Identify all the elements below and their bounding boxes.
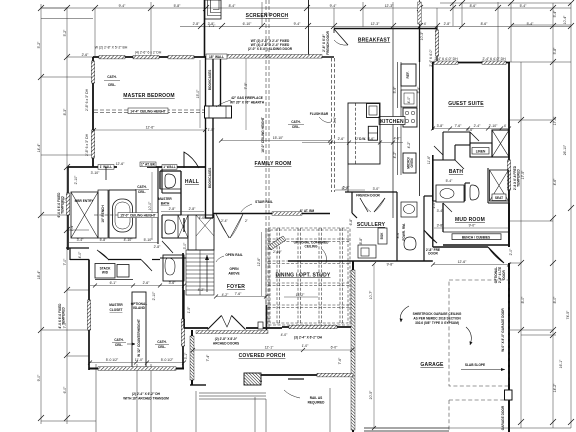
kitchen counter edge <box>397 62 399 108</box>
svg-text:CEIL.: CEIL. <box>115 343 123 347</box>
bench/cubbies <box>452 234 501 240</box>
svg-text:2'-4": 2'-4" <box>474 124 482 128</box>
stairs <box>186 250 214 295</box>
svg-text:SCREEN PORCH: SCREEN PORCH <box>246 13 289 19</box>
svg-text:6'-8": 6'-8" <box>349 218 353 226</box>
foyer right wall to dining <box>265 228 267 328</box>
garage corner door <box>488 247 504 263</box>
svg-text:PDWR. RM.: PDWR. RM. <box>402 223 406 240</box>
guest wing left wall upper <box>436 26 438 62</box>
micro/oven box <box>403 153 416 173</box>
svg-text:SCULLERY: SCULLERY <box>357 222 386 228</box>
svg-text:8'-6": 8'-6" <box>396 231 400 239</box>
porch dim line <box>193 349 352 351</box>
svg-text:5'-8": 5'-8" <box>553 47 557 55</box>
master bedroom top wall <box>93 57 206 167</box>
svg-text:(2) 2'-8" X 8'-0": (2) 2'-8" X 8'-0" <box>215 337 238 341</box>
svg-text:OPEN: OPEN <box>229 267 239 271</box>
svg-text:10'-3": 10'-3" <box>420 31 424 40</box>
tub platform <box>109 190 136 238</box>
scullery counter <box>358 245 376 258</box>
10-0 vertical dim <box>151 172 153 240</box>
svg-text:BREAKFAST: BREAKFAST <box>358 38 390 44</box>
svg-text:9'-4": 9'-4" <box>330 4 338 8</box>
svg-text:DOOR: DOOR <box>428 252 438 256</box>
kitchen right wall <box>419 0 421 26</box>
svg-text:5'-8": 5'-8" <box>100 238 108 242</box>
svg-text:ABOVE: ABOVE <box>228 272 239 276</box>
svg-text:302.6 (5/8" TYPE X GYPSUM): 302.6 (5/8" TYPE X GYPSUM) <box>415 321 459 325</box>
linen label <box>472 148 489 155</box>
svg-text:2'-8" 6 x 3" DH: 2'-8" 6 x 3" DH <box>85 88 89 111</box>
mud room dims <box>434 227 508 229</box>
svg-text:TEMPERED: TEMPERED <box>61 195 65 213</box>
bsk box <box>378 228 387 244</box>
svg-text:CEIL.: CEIL. <box>138 190 146 194</box>
svg-text:3'-1": 3'-1" <box>333 116 337 124</box>
svg-text:7'-4": 7'-4" <box>70 224 74 232</box>
svg-text:2'-4" 6 4'-0" DH: 2'-4" 6 4'-0" DH <box>434 57 458 61</box>
svg-text:4'-0": 4'-0" <box>281 333 289 337</box>
svg-text:2'-8": 2'-8" <box>193 22 201 26</box>
svg-text:7'-4": 7'-4" <box>206 354 210 362</box>
ceiling dashed line vertical <box>266 0 269 328</box>
svg-text:CEIL.: CEIL. <box>158 345 166 349</box>
svg-text:5'-4": 5'-4" <box>520 4 528 8</box>
svg-text:14'-4": 14'-4" <box>37 143 41 152</box>
dining corner hatched wedge <box>268 236 286 250</box>
svg-text:REF.: REF. <box>406 71 410 78</box>
wc toilet 2 <box>165 220 176 234</box>
svg-text:2'-4": 2'-4" <box>221 219 229 223</box>
svg-text:3'-10": 3'-10" <box>91 171 100 175</box>
svg-text:4'-2": 4'-2" <box>393 151 397 159</box>
stack w/d <box>95 264 115 279</box>
svg-text:BATH: BATH <box>449 169 464 175</box>
svg-text:16" BENCH: 16" BENCH <box>101 205 105 223</box>
range <box>403 108 417 127</box>
svg-text:8'-8": 8'-8" <box>359 237 363 245</box>
svg-text:MASTER: MASTER <box>158 197 172 201</box>
scattered small dims <box>70 22 513 382</box>
svg-text:1" AT. BK: 1" AT. BK <box>141 163 156 167</box>
scullery walls <box>345 192 433 261</box>
window note block <box>248 39 293 51</box>
svg-text:12'-3": 12'-3" <box>385 4 394 8</box>
right dim line b <box>552 3 554 428</box>
svg-text:5'-10": 5'-10" <box>144 238 153 242</box>
svg-text:2'-6": 2'-6" <box>338 137 346 141</box>
svg-text:4'-0": 4'-0" <box>199 216 207 220</box>
garage right wall <box>508 263 510 390</box>
top dim line 1 <box>41 7 571 9</box>
svg-text:BATH: BATH <box>161 202 170 206</box>
svg-text:DOOR: DOOR <box>502 270 506 280</box>
svg-text:2'-6": 2'-6" <box>82 53 90 57</box>
closet top door arc <box>97 250 109 260</box>
svg-text:3'-8": 3'-8" <box>437 124 445 128</box>
svg-text:5'-8": 5'-8" <box>174 4 182 8</box>
top extension lines <box>95 2 511 218</box>
svg-text:2'-8": 2'-8" <box>169 207 177 211</box>
svg-text:10'-7": 10'-7" <box>369 290 373 299</box>
svg-text:D.W.: D.W. <box>359 137 366 141</box>
svg-text:2'-8": 2'-8" <box>444 22 452 26</box>
screen porch right screen line <box>308 0 310 56</box>
svg-text:STAIR RAIL: STAIR RAIL <box>255 200 273 204</box>
guest suite right wall (house right wall) <box>508 62 510 247</box>
garage door jamb <box>505 390 513 400</box>
master bedroom window hatches left <box>91 61 94 83</box>
svg-text:2'-0": 2'-0" <box>432 201 436 209</box>
hall double doors swings <box>216 214 243 238</box>
svg-text:26'-10": 26'-10" <box>563 144 567 155</box>
svg-text:13'-2": 13'-2" <box>296 293 305 297</box>
svg-text:MASTER: MASTER <box>109 303 123 307</box>
closet right wall <box>182 253 184 369</box>
closet right <box>492 130 509 157</box>
guest vanity <box>436 185 464 202</box>
svg-text:12'-6": 12'-6" <box>116 162 125 166</box>
svg-text:5'-6": 5'-6" <box>368 137 376 141</box>
svg-text:4'-2": 4'-2" <box>198 288 206 292</box>
kitchen counter right <box>400 62 402 175</box>
svg-text:1'-5": 1'-5" <box>187 306 191 314</box>
svg-text:4'-0": 4'-0" <box>394 137 402 141</box>
svg-text:5'-9": 5'-9" <box>393 86 397 94</box>
svg-text:(3) 2'-4" X 6'-2" DH: (3) 2'-4" X 6'-2" DH <box>294 336 323 340</box>
svg-text:9'-0": 9'-0" <box>469 224 477 228</box>
dim 6-1 <box>90 285 184 287</box>
svg-text:CATH.: CATH. <box>107 75 117 79</box>
porch left wall <box>191 330 193 385</box>
svg-text:(2'-0" X 8'-0") SLIDING DOOR: (2'-0" X 8'-0") SLIDING DOOR <box>248 47 293 51</box>
ceiling height dashed (bath) <box>94 214 158 216</box>
svg-text:COVERED PORCH: COVERED PORCH <box>239 353 286 359</box>
svg-text:20'-5": 20'-5" <box>369 390 373 399</box>
svg-text:GARAGE DOOR: GARAGE DOOR <box>501 405 505 430</box>
sheetrock note <box>413 312 462 325</box>
svg-text:11'-0": 11'-0" <box>135 358 144 362</box>
svg-text:W (2) 2'-8" X 5'-2" BH: W (2) 2'-8" X 5'-2" BH <box>95 46 128 50</box>
svg-text:MBR ENTRY: MBR ENTRY <box>75 199 95 203</box>
svg-text:MASTER BEDROOM: MASTER BEDROOM <box>123 93 174 99</box>
svg-text:11'-6": 11'-6" <box>427 155 431 164</box>
svg-text:ISLAND: ISLAND <box>133 306 146 310</box>
porch front pier <box>244 373 261 385</box>
svg-text:3'-4": 3'-4" <box>77 238 85 242</box>
svg-text:12'-6": 12'-6" <box>458 260 467 264</box>
svg-text:5'-8": 5'-8" <box>417 86 421 94</box>
svg-text:7'-6": 7'-6" <box>455 124 463 128</box>
svg-text:ARCHED DOORS: ARCHED DOORS <box>213 342 239 346</box>
svg-text:1'-0": 1'-0" <box>302 344 310 348</box>
svg-text:3'-8": 3'-8" <box>437 224 445 228</box>
right dim line c <box>570 3 572 428</box>
svg-text:3'-0": 3'-0" <box>183 242 187 250</box>
svg-text:1'-5": 1'-5" <box>208 128 216 132</box>
fireplace <box>205 106 232 118</box>
ceiling height label box <box>128 108 168 114</box>
svg-text:12'-6": 12'-6" <box>146 126 155 130</box>
svg-text:12'-3": 12'-3" <box>371 22 380 26</box>
svg-text:9'-4": 9'-4" <box>294 22 302 26</box>
svg-text:8'-6": 8'-6" <box>470 4 478 8</box>
svg-text:LINEN: LINEN <box>476 150 486 154</box>
svg-text:CATH.: CATH. <box>114 338 124 342</box>
svg-text:9'-0": 9'-0" <box>37 374 41 382</box>
shower lower <box>163 255 184 281</box>
svg-text:DINING / OPT. STUDY: DINING / OPT. STUDY <box>276 273 331 279</box>
svg-text:6'-0": 6'-0" <box>331 346 339 350</box>
svg-text:17'-6": 17'-6" <box>553 116 557 125</box>
left dim line outer <box>40 4 42 424</box>
right dim line a <box>520 62 522 428</box>
master bedroom window hatches top <box>99 56 125 59</box>
kitchen label box <box>379 117 405 125</box>
bookcase wall lines <box>206 57 221 218</box>
svg-text:2'-10": 2'-10" <box>273 250 282 254</box>
svg-text:17'-5": 17'-5" <box>521 170 525 179</box>
svg-text:8'-4": 8'-4" <box>229 4 237 8</box>
svg-text:2': 2' <box>245 219 248 223</box>
svg-text:2'-0": 2'-0" <box>509 248 513 256</box>
svg-text:15'-10": 15'-10" <box>273 136 284 140</box>
closet bottom wall <box>89 368 184 370</box>
svg-text:CEILING: CEILING <box>305 245 318 249</box>
guest suite left wall <box>432 62 434 130</box>
svg-text:FAMILY ROOM: FAMILY ROOM <box>255 161 292 167</box>
svg-text:FOYER: FOYER <box>227 284 245 290</box>
linen <box>470 143 492 157</box>
svg-text:2'-10": 2'-10" <box>489 124 498 128</box>
svg-text:3'-1": 3'-1" <box>184 352 188 360</box>
svg-text:10'-4": 10'-4" <box>563 15 567 24</box>
left dim line inner <box>66 7 68 424</box>
svg-text:7'-5": 7'-5" <box>244 82 248 90</box>
svg-text:MUD ROOM: MUD ROOM <box>455 217 485 223</box>
svg-text:W 32" COUNTERHEIGHT: W 32" COUNTERHEIGHT <box>137 319 141 357</box>
right dim rotated labels <box>521 10 570 392</box>
bath inner walls <box>433 200 465 202</box>
svg-text:WITH 18" ARCHED TRANSOM: WITH 18" ARCHED TRANSOM <box>123 397 169 401</box>
guest suite dim line <box>433 128 509 130</box>
family room interior dim <box>221 140 330 142</box>
guest bath outer walls <box>432 155 434 201</box>
entry double door leaves <box>208 316 222 330</box>
upper cabinet box <box>401 90 417 107</box>
svg-text:14'-2": 14'-2" <box>553 383 557 392</box>
master bath tub <box>113 199 133 232</box>
svg-text:CATH.: CATH. <box>137 185 147 189</box>
bottom extension lines <box>96 364 330 432</box>
mud room top walls <box>433 201 509 247</box>
interior dim line master bedroom <box>94 129 205 131</box>
svg-text:TEMPERED: TEMPERED <box>62 306 66 324</box>
svg-text:74'-5": 74'-5" <box>566 310 570 319</box>
top dim line 2 <box>180 26 571 28</box>
master bedroom south wall <box>68 166 206 168</box>
foyer vertical dim <box>261 232 263 296</box>
svg-text:CATH.: CATH. <box>157 340 167 344</box>
porch bottom left wall <box>190 384 206 386</box>
foyer south wall + entry doors <box>184 327 208 329</box>
interior dim ticks <box>88 127 511 431</box>
svg-text:AS PER NBRDC 2018 SECTION: AS PER NBRDC 2018 SECTION <box>413 317 461 321</box>
breakfast top wall <box>334 28 437 30</box>
1' wall box wc <box>162 165 177 170</box>
left entry closet X box <box>71 190 108 238</box>
svg-text:12'-1": 12'-1" <box>265 346 274 350</box>
bath walls <box>68 167 213 250</box>
laundry door leaves <box>141 260 152 272</box>
dim line under bath <box>161 211 204 213</box>
svg-text:42" GAS FIREPLACE: 42" GAS FIREPLACE <box>231 96 263 100</box>
svg-text:5'-4": 5'-4" <box>527 22 535 26</box>
guest suite top wall <box>432 62 510 64</box>
dining coffered ceiling grid <box>268 228 350 325</box>
long wall dining-kitchen bottom <box>288 260 397 262</box>
svg-text:18'-0" CEILING HEIGHT: 18'-0" CEILING HEIGHT <box>261 117 265 152</box>
family room south wall <box>213 213 330 215</box>
svg-text:6'-1": 6'-1" <box>110 281 118 285</box>
svg-text:3'-4": 3'-4" <box>437 209 445 213</box>
porch steps <box>199 393 266 399</box>
french door corner <box>334 29 348 46</box>
svg-text:14'-4" CEILING HEIGHT: 14'-4" CEILING HEIGHT <box>130 109 165 113</box>
svg-text:2'-10": 2'-10" <box>152 291 156 300</box>
svg-text:2'-6": 2'-6" <box>143 281 151 285</box>
svg-text:BSK: BSK <box>380 232 384 239</box>
left margin connector lines <box>41 8 96 421</box>
foyer dims <box>216 296 266 298</box>
REF box <box>401 64 416 86</box>
18 wall box <box>206 54 227 59</box>
porch planter structure <box>205 0 221 19</box>
guest shower <box>490 170 509 201</box>
porch front left area steps rails <box>288 378 304 380</box>
top dimension labels <box>119 4 535 26</box>
svg-text:4'-0": 4'-0" <box>78 251 82 259</box>
svg-text:5'-2": 5'-2" <box>37 41 41 49</box>
svg-text:4'-6": 4'-6" <box>553 178 557 186</box>
1' wall label boxes <box>98 165 114 170</box>
svg-text:KITCHEN: KITCHEN <box>380 119 404 125</box>
svg-text:5'-0 1/2": 5'-0 1/2" <box>106 358 119 362</box>
svg-text:FRENCH DOOR: FRENCH DOOR <box>326 30 330 54</box>
svg-text:9'-4": 9'-4" <box>119 4 127 8</box>
garage left wall <box>352 261 354 432</box>
svg-text:BOOKCASES: BOOKCASES <box>208 168 212 189</box>
svg-text:2'-8" 6 x 3" DH: 2'-8" 6 x 3" DH <box>85 133 89 156</box>
svg-text:GARAGE: GARAGE <box>420 362 444 368</box>
svg-text:16'-1": 16'-1" <box>559 359 563 368</box>
door to garage hall <box>424 230 437 243</box>
svg-text:4'-0": 4'-0" <box>407 96 411 104</box>
family room right wall <box>332 58 335 192</box>
stair landing walls <box>188 215 214 250</box>
svg-text:TEMPERED: TEMPERED <box>517 168 521 186</box>
dining south wall <box>282 326 352 328</box>
svg-text:OPEN RAIL: OPEN RAIL <box>225 253 242 257</box>
porch front wall right <box>261 374 353 376</box>
svg-text:6'-10": 6'-10" <box>243 22 252 26</box>
kitchen island <box>348 103 380 164</box>
guest bath door arcs <box>470 132 479 141</box>
kitchen divider line <box>392 28 394 218</box>
svg-text:2'-10": 2'-10" <box>74 175 78 184</box>
svg-text:1': 1' <box>259 379 263 382</box>
garage top wall <box>433 246 488 248</box>
svg-text:5'-2": 5'-2" <box>342 187 350 191</box>
svg-text:7'-0": 7'-0" <box>63 258 67 266</box>
garage ceiling dashed bay 2 <box>449 400 509 432</box>
left wall window + note <box>66 193 69 215</box>
closet island <box>132 292 146 369</box>
dim row under bath block <box>69 242 158 244</box>
svg-text:BENCH / CUBBIES: BENCH / CUBBIES <box>462 235 490 239</box>
svg-text:6" AT. BM: 6" AT. BM <box>300 209 315 213</box>
svg-text:W/D: W/D <box>102 271 109 275</box>
ceiling height dashed line <box>94 110 205 113</box>
svg-text:(4) 2'-6" 6 x 2' DH: (4) 2'-6" 6 x 2' DH <box>135 51 162 55</box>
svg-text:8'-0": 8'-0" <box>553 296 557 304</box>
svg-text:WT 20" X 76" HEARTH: WT 20" X 76" HEARTH <box>230 101 265 105</box>
svg-text:8'-0": 8'-0" <box>521 296 525 304</box>
svg-text:5'-4": 5'-4" <box>446 179 454 183</box>
svg-text:8'-3": 8'-3" <box>63 108 67 116</box>
svg-text:REQUIRED: REQUIRED <box>308 401 326 405</box>
svg-text:HALL: HALL <box>185 179 199 185</box>
svg-text:12'-6": 12'-6" <box>257 257 261 266</box>
svg-text:6'-0": 6'-0" <box>63 386 67 394</box>
svg-text:GUEST SUITE: GUEST SUITE <box>448 101 484 107</box>
svg-text:4': 4' <box>504 124 507 128</box>
svg-text:5'-2": 5'-2" <box>63 29 67 37</box>
svg-text:4': 4' <box>424 22 427 26</box>
svg-text:10'-0": 10'-0" <box>148 201 152 210</box>
up arrow on stairs <box>206 255 208 292</box>
svg-text:1'-1": 1'-1" <box>209 24 217 28</box>
garage bottom lines <box>364 427 449 429</box>
svg-text:CEIL.: CEIL. <box>108 83 116 87</box>
svg-text:5'-0 1/2": 5'-0 1/2" <box>161 358 174 362</box>
svg-text:CLOSET: CLOSET <box>110 308 123 312</box>
svg-text:FLUSH BAR: FLUSH BAR <box>310 112 329 116</box>
svg-text:CATH.: CATH. <box>291 120 301 124</box>
svg-text:SHEETROCK GARAGE CEILING: SHEETROCK GARAGE CEILING <box>413 312 462 316</box>
svg-text:7'-6": 7'-6" <box>235 292 243 296</box>
wc room walls <box>158 167 188 244</box>
hall door arc <box>184 152 199 168</box>
wc toilet 1 <box>165 174 176 188</box>
screen porch left wall <box>204 0 206 57</box>
svg-text:CEIL.: CEIL. <box>292 125 300 129</box>
svg-text:FRENCH DOOR: FRENCH DOOR <box>356 194 380 198</box>
svg-text:5'-4": 5'-4" <box>553 10 557 18</box>
svg-text:3'-0": 3'-0" <box>373 187 381 191</box>
svg-text:4'-2": 4'-2" <box>222 293 230 297</box>
svg-text:4'-2": 4'-2" <box>407 141 411 149</box>
svg-text:3'-6": 3'-6" <box>169 281 177 285</box>
svg-text:RAIL AS: RAIL AS <box>310 396 323 400</box>
closet bottom dim <box>90 362 184 364</box>
svg-text:|2': |2' <box>355 137 359 141</box>
svg-text:(2) 2'-4" X 6'-2" DH: (2) 2'-4" X 6'-2" DH <box>132 392 161 396</box>
svg-text:SEAT: SEAT <box>495 196 503 200</box>
svg-text:9'-8": 9'-8" <box>387 263 395 267</box>
closet window + note <box>87 300 90 330</box>
